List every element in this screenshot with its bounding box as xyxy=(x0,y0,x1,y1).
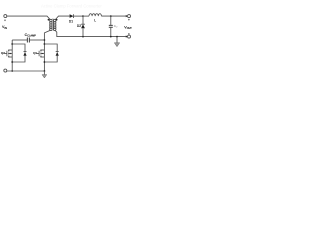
polarity mark output- xyxy=(128,33,130,35)
ground secondary xyxy=(116,37,118,43)
node Q1 drain/diode xyxy=(44,43,46,45)
wire Q2 source down xyxy=(11,62,13,71)
node ground sec xyxy=(116,36,118,38)
inductor L xyxy=(89,14,101,16)
node rail left xyxy=(11,70,13,72)
output terminal VOUT- xyxy=(128,35,131,38)
svg-text:Q2: Q2 xyxy=(1,51,5,55)
svg-text:D1: D1 xyxy=(69,20,73,24)
plus mark input xyxy=(4,19,6,21)
mosfet Q1 xyxy=(37,48,45,62)
wire primary bottom xyxy=(44,30,50,48)
input terminal VIN+ xyxy=(4,15,7,18)
svg-text:D2: D2 xyxy=(77,24,81,28)
transformer T1 secondary winding xyxy=(53,19,56,30)
node rail right xyxy=(44,70,46,72)
node Q2 drain/diode xyxy=(11,43,13,45)
node Cout top xyxy=(110,15,112,17)
input terminal VIN- xyxy=(4,69,7,72)
wire L to output xyxy=(101,15,126,17)
wire Cclamp to Q2 drain xyxy=(12,39,27,41)
svg-text:Active Clamp Forward Converter: Active Clamp Forward Converter xyxy=(41,4,102,9)
polarity dot secondary xyxy=(56,19,58,21)
wire D1 to D2 node xyxy=(74,15,84,17)
mosfet Q2 xyxy=(5,48,13,62)
node clamp branch xyxy=(44,39,46,41)
plus mark output xyxy=(128,19,130,21)
svg-text:Q1: Q1 xyxy=(33,51,37,55)
node Q2 source rail xyxy=(11,61,13,63)
node Cout bottom xyxy=(110,36,112,38)
output terminal VOUT+ xyxy=(128,15,131,18)
arrow to VOUT- xyxy=(126,35,128,37)
polarity dot primary xyxy=(48,19,50,21)
wire clamp down xyxy=(11,40,13,48)
wire Q1 source down xyxy=(43,62,45,71)
capacitor Cclamp xyxy=(28,38,30,43)
wire node to L xyxy=(83,15,89,17)
svg-text:L: L xyxy=(94,19,96,23)
body diode Q2 xyxy=(12,44,25,52)
node D2 top xyxy=(82,15,84,17)
node D2 bottom xyxy=(82,36,84,38)
wire top rail primary xyxy=(7,16,50,19)
capacitor Cout xyxy=(109,24,113,26)
body diode Q1 xyxy=(44,44,57,52)
diode D2 xyxy=(82,16,84,24)
arrow to VOUT+ xyxy=(126,15,128,17)
svg-text:CCLAMP: CCLAMP xyxy=(25,33,37,38)
bottom rail xyxy=(7,70,45,72)
wire Cout top lead xyxy=(110,16,112,25)
wire Cout bottom lead xyxy=(110,27,112,36)
ground primary xyxy=(43,71,45,75)
diode D1 xyxy=(70,14,74,18)
wire clamp cap xyxy=(29,39,44,41)
transformer T1 primary winding xyxy=(50,19,53,30)
wire secondary top to D1 xyxy=(55,16,69,19)
secondary return rail xyxy=(55,30,126,36)
svg-text:VIN: VIN xyxy=(2,25,7,30)
svg-text:VOUT: VOUT xyxy=(124,26,132,31)
transformer core xyxy=(51,19,54,31)
node Q1 source xyxy=(44,61,46,63)
